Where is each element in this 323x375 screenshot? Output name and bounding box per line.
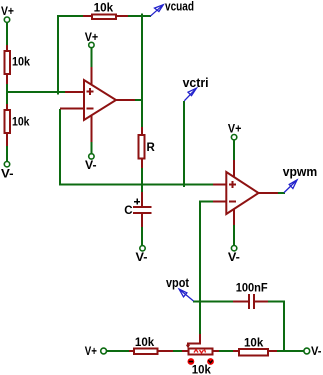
wire top feedback horizontal right + vcuad stub [127, 15, 151, 17]
svg-text:10k: 10k [12, 117, 30, 129]
svg-text:10k: 10k [12, 57, 31, 69]
svg-text:10k: 10k [135, 337, 155, 349]
capacitor C plus polarity mark [134, 199, 140, 205]
resistor R2 10k body [5, 110, 11, 133]
capacitor 100nF plates [249, 294, 254, 309]
capacitor C leads [141, 192, 143, 207]
resistor R2 leads [6, 104, 8, 111]
potentiometer P1 red value squiggle [194, 350, 206, 354]
resistor R3 10k feedback body [92, 15, 116, 20]
wire U2 - input from pot column [200, 201, 214, 203]
wire U1 V+ pin [90, 48, 92, 68]
wire R bottom to node vctri [141, 167, 143, 185]
wire op-amp U1 output to node [134, 99, 143, 101]
svg-text:100nF: 100nF [236, 283, 268, 295]
resistor R5 10k bottom-left body [134, 349, 158, 355]
svg-text:V-: V- [85, 160, 97, 172]
svg-text:vpwm: vpwm [283, 164, 318, 179]
svg-text:vpot: vpot [166, 275, 190, 290]
op-amp U1 pins [65, 91, 84, 93]
resistor R1 10k body [5, 51, 11, 74]
svg-text:V+: V+ [1, 6, 14, 18]
wire U2 output stub [277, 192, 285, 194]
resistor R6 10k bottom-right body [239, 349, 268, 356]
resistor R1 leads [6, 45, 8, 52]
op-amp U2 pins [213, 184, 226, 186]
svg-text:R: R [147, 142, 156, 154]
wire main horizontal vctri rail [59, 184, 214, 186]
svg-text:vctri: vctri [183, 75, 209, 90]
wire U1 - input corner down [59, 109, 61, 185]
wire divider midpoint to U1 + input [6, 91, 66, 93]
svg-text:V+: V+ [85, 32, 99, 44]
op-amp U2 [226, 172, 258, 214]
wire top feedback horizontal left [58, 15, 84, 17]
resistor R3 leads [83, 15, 93, 17]
wire capacitor C to V- terminal [141, 184, 143, 193]
wire U1 V- pin [90, 141, 92, 154]
wire vertical left feedback column [57, 15, 59, 95]
node vpot label arrow [179, 289, 193, 301]
svg-text:10k: 10k [192, 365, 212, 375]
resistor R leads [141, 127, 143, 136]
node vpwm label arrow [284, 180, 297, 193]
terminal V+ op-amp U2 [231, 135, 236, 140]
svg-text:10k: 10k [244, 338, 264, 350]
terminal V+ top-left [4, 17, 9, 22]
terminal V- op-amp U1 [89, 154, 94, 159]
wire bottom rail segments [107, 350, 130, 352]
svg-text:V-: V- [1, 168, 14, 180]
resistor R body [139, 135, 145, 158]
svg-text:V-: V- [311, 346, 322, 358]
node vctri label arrow [184, 88, 196, 101]
terminal V- bottom right [304, 348, 310, 354]
node vcuad label arrow [150, 5, 163, 17]
potentiometer P1 wiper arm [186, 334, 200, 348]
wire U2 V+ pin [233, 141, 235, 162]
svg-text:V-: V- [228, 252, 240, 264]
terminal V+ op-amp U1 [89, 42, 94, 47]
potentiometer P1 down button [207, 358, 214, 365]
capacitor C plates [133, 207, 152, 213]
svg-text:V+: V+ [228, 124, 242, 136]
wire vctri label stub [183, 101, 185, 187]
wire U2 V- pin [233, 224, 235, 246]
svg-text:10k: 10k [94, 3, 114, 15]
potentiometer P1 minus button [188, 358, 195, 365]
terminal V- op-amp U2 [231, 246, 236, 251]
op-amp U1 [84, 80, 116, 120]
terminal V- bottom of divider [4, 162, 9, 167]
svg-text:C: C [124, 205, 132, 217]
bottom resistor leads [129, 350, 134, 352]
terminal V+ bottom left [101, 348, 107, 354]
potentiometer P1 10k body [189, 349, 213, 355]
svg-text:V-: V- [136, 252, 148, 264]
svg-text:V+: V+ [85, 346, 97, 358]
wire 100nF right lead corner down [267, 301, 285, 303]
wire vpot stub and branch to 100nF [193, 301, 234, 303]
wire divider middle segments [6, 83, 8, 105]
wire V+ terminal to divider top [6, 23, 8, 46]
capacitor 100nF leads [233, 301, 249, 303]
wire vertical vcuad node down to R [141, 14, 143, 129]
svg-text:vcuad: vcuad [165, 0, 194, 13]
terminal V- below capacitor C [140, 246, 145, 251]
